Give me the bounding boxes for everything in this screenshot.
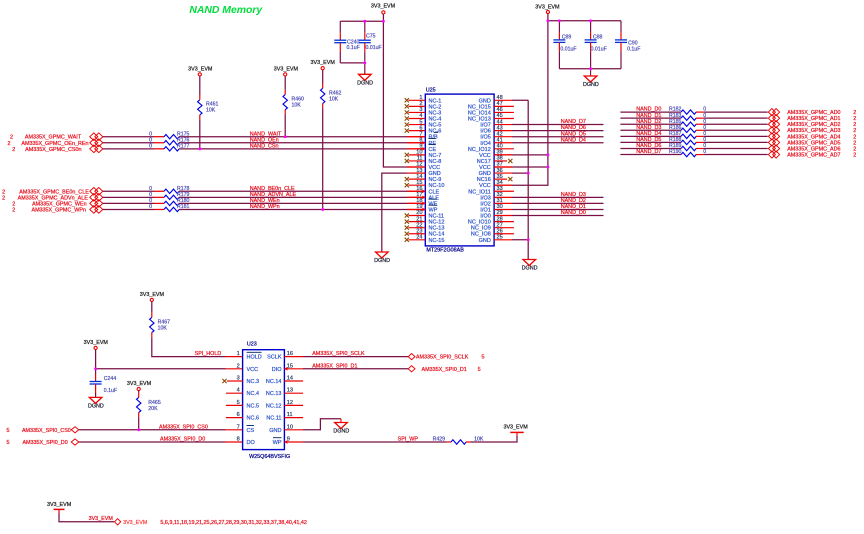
IC U23 W25Q64BVSFIG body — [243, 350, 285, 450]
resistor R465 20K pullup — [138, 391, 140, 393]
svg-text:3V3_EVM: 3V3_EVM — [188, 66, 213, 72]
wire net NAND_ADVN_ALE to U25 — [179, 196, 407, 198]
wire AM335X_SPI0_D0 to U23 pin 8 — [79, 441, 226, 443]
U25 pin 39 (VCC) — [479, 150, 512, 159]
svg-text:NAND_D4: NAND_D4 — [561, 137, 586, 143]
resistor R188 0 ohm — [681, 140, 696, 144]
svg-text:GND: GND — [269, 428, 281, 434]
capacitor C75 0.01uF — [364, 21, 366, 33]
U25 pin 19 (WP) — [407, 204, 438, 213]
svg-text:NC.4: NC.4 — [247, 391, 260, 397]
svg-text:SCLK: SCLK — [267, 355, 282, 361]
U25 pin 43 (I/O6) — [480, 125, 512, 134]
wire net NAND_D0 from U25 pin 29 — [512, 215, 604, 217]
svg-text:C88: C88 — [593, 35, 603, 41]
wire U25 pin 39 VCC to rail — [512, 154, 548, 156]
resistor R175 0 ohm — [154, 136, 164, 138]
U25 pin 48 (GND) — [479, 95, 512, 104]
wire R185 to off-page — [704, 123, 768, 125]
wire NAND_WEn left segment — [103, 202, 154, 204]
wire 3V3_EVM to off-page — [59, 514, 114, 522]
U25 pin 37 (VCC) — [479, 162, 512, 171]
svg-text:0.01uF: 0.01uF — [366, 45, 382, 51]
svg-text:3V3_EVM: 3V3_EVM — [47, 502, 72, 508]
svg-text:NAND_WPn: NAND_WPn — [250, 204, 280, 210]
wire net NAND_OEn to U25 — [179, 142, 407, 144]
svg-text:5: 5 — [478, 367, 481, 373]
resistor R183 0 ohm — [681, 116, 696, 120]
U23 pin 16 (SCLK) — [267, 351, 303, 361]
svg-text:2: 2 — [12, 207, 15, 213]
U25 pin 1 (NC-1) — [405, 95, 442, 104]
U25 pin 6 (NC-6) — [405, 125, 442, 134]
node AM335X_GPMC_AD1 off-page connector — [768, 115, 775, 122]
svg-text:3V3_EVM: 3V3_EVM — [274, 66, 299, 72]
svg-text:NC.13: NC.13 — [266, 391, 282, 397]
wire NAND_WPn left segment — [103, 208, 154, 210]
svg-text:NAND Memory: NAND Memory — [189, 5, 263, 16]
wire AM335X_SPI0_CS0 to U23 pin 7 — [79, 429, 226, 431]
U25 pin 41 (I/O4) — [480, 137, 512, 146]
svg-text:SPI_WP: SPI_WP — [398, 437, 419, 443]
node AM335X_GPMC_AD4 off-page connector — [768, 133, 775, 140]
svg-text:2: 2 — [237, 363, 240, 369]
wire U25 pin 37 VCC to rail — [512, 166, 548, 168]
svg-text:0.1uF: 0.1uF — [347, 45, 360, 51]
svg-text:3V3_EVM: 3V3_EVM — [140, 292, 165, 298]
U25 pin 14 (NC-9) — [405, 174, 442, 183]
U25 pin 36 (GND) — [479, 168, 512, 177]
svg-text:0: 0 — [149, 143, 152, 149]
U25 pin 38 (NC17) — [477, 156, 513, 165]
svg-text:NAND_D7: NAND_D7 — [636, 149, 661, 155]
U25 pin 28 (NC_IO10) — [468, 216, 514, 225]
svg-text:3V3_EVM: 3V3_EVM — [503, 425, 528, 431]
wire U25 pin 25 GND to rail — [512, 239, 528, 241]
wire R187 to off-page — [704, 135, 768, 137]
U25 pin 32 (I/O3) — [480, 192, 512, 201]
svg-text:C244: C244 — [104, 376, 117, 382]
svg-text:NC.5: NC.5 — [247, 403, 260, 409]
svg-text:DGND: DGND — [88, 403, 104, 409]
wire top-right cap bottom rail — [559, 68, 621, 70]
node AM335X_GPMC_AD0 off-page connector — [768, 109, 775, 116]
svg-text:2: 2 — [12, 147, 15, 153]
U23 pin 2 (VCC) — [237, 363, 258, 373]
svg-text:3V3_EVM: 3V3_EVM — [127, 381, 152, 387]
svg-text:3V3_EVM: 3V3_EVM — [535, 5, 560, 11]
U25 pin 3 (NC-3) — [405, 107, 442, 116]
U25 pin 4 (NC-4) — [405, 113, 442, 122]
junction dots overlay — [94, 19, 592, 431]
wire R182 to off-page — [704, 111, 768, 113]
svg-text:5,6,9,11,18,19,21,25,26,27,28,: 5,6,9,11,18,19,21,25,26,27,28,29,30,31,3… — [160, 520, 306, 526]
U25 pin 16 (CLE) — [407, 186, 440, 195]
svg-text:0.1uF: 0.1uF — [104, 388, 117, 394]
wire net NAND_D2 right block — [620, 123, 681, 125]
svg-text:DIO: DIO — [272, 367, 283, 373]
svg-text:AM335X_SPI0_D0: AM335X_SPI0_D0 — [22, 440, 67, 446]
U25 pin 25 (GND) — [479, 234, 512, 243]
node AM335X_SPI0_SCLK off-page connector — [408, 354, 415, 360]
wire net NAND_D5 from U25 pin 42 — [512, 136, 604, 138]
wire NAND_BE0n_CLE left segment — [103, 190, 154, 192]
U25 pin 46 (NC_IO14) — [468, 107, 514, 116]
node 3V3_EVM off-page connector (bottom) — [115, 519, 121, 525]
svg-text:NC.12: NC.12 — [266, 403, 282, 409]
resistor R190 0 ohm — [681, 152, 696, 156]
ground DGND (top middle) — [364, 63, 366, 74]
svg-text:R429: R429 — [433, 437, 446, 443]
svg-text:CS: CS — [247, 428, 255, 434]
U25 pin 15 (NC-10) — [405, 180, 445, 189]
svg-text:AM335X_SPI0_D1: AM335X_SPI0_D1 — [312, 363, 357, 369]
svg-text:AM335X_SPI0_CS0: AM335X_SPI0_CS0 — [159, 424, 208, 430]
U23 pin 12 (NC.12) — [266, 400, 303, 410]
wire cap top rail — [340, 20, 383, 22]
U25 pin 2 (NC-2) — [405, 101, 442, 110]
svg-text:0: 0 — [149, 204, 152, 210]
resistor R189 0 ohm — [681, 146, 696, 150]
U23 pin 5 (NC.5) — [226, 400, 259, 410]
U25 pin 22 (NC-13) — [405, 222, 445, 231]
svg-text:DO: DO — [247, 440, 256, 446]
IC U25 MT29F2G08AB body — [425, 94, 494, 246]
svg-text:10K: 10K — [292, 103, 302, 109]
svg-text:W25Q64BVSFIG: W25Q64BVSFIG — [249, 454, 290, 460]
svg-text:20K: 20K — [148, 406, 158, 412]
U25 pin 17 (ALE) — [407, 192, 439, 201]
resistor R462 10K pullup — [322, 70, 324, 84]
wire net NAND_D5 right block — [620, 141, 681, 143]
U25 pin 20 (NC-11) — [405, 210, 444, 219]
svg-text:DGND: DGND — [583, 82, 599, 88]
resistor R178 0 ohm — [154, 190, 164, 192]
U25 pin 42 (I/O5) — [480, 131, 512, 140]
U25 pin 5 (NC-5) — [405, 119, 442, 128]
svg-text:10K: 10K — [158, 326, 168, 332]
U23 pin 14 (NC.14) — [266, 376, 303, 386]
svg-text:DGND: DGND — [522, 266, 538, 272]
svg-text:AM335X_SPI0_D1: AM335X_SPI0_D1 — [422, 367, 467, 373]
wire U25 pin 13 GND to DGND drop — [407, 172, 425, 174]
U25 pin 9 (CE) — [407, 144, 436, 153]
resistor R186 0 ohm — [681, 128, 696, 132]
svg-text:NC.6: NC.6 — [247, 416, 260, 422]
wire AM335X_SPI0_SCLK from U23 pin 16 — [303, 356, 408, 358]
capacitor C88 0.01uF — [590, 21, 592, 33]
capacitor C240 0.1uF — [339, 21, 341, 33]
U23 pin 6 (NC.6) — [226, 412, 259, 422]
svg-text:AM335X_GPMC_WPn: AM335X_GPMC_WPn — [31, 207, 86, 213]
wire net NAND_D0 right block — [620, 111, 681, 113]
wire AM335X_SPI0_D1 from U23 pin 15 — [303, 368, 408, 370]
ground DGND (below U25) — [523, 260, 536, 266]
svg-text:3V3_EVM: 3V3_EVM — [371, 3, 396, 9]
svg-text:GND: GND — [479, 238, 491, 244]
svg-text:10K: 10K — [329, 96, 339, 102]
U25 pin 7 (R/B) — [407, 131, 438, 140]
resistor R177 0 ohm — [154, 148, 164, 150]
wire NAND_WAIT left segment — [103, 136, 154, 138]
U25 pin 21 (NC-12) — [405, 216, 445, 225]
ground DGND (top right) — [590, 69, 592, 76]
svg-text:NC.3: NC.3 — [247, 379, 260, 385]
svg-text:3V3_EVM: 3V3_EVM — [89, 516, 114, 522]
svg-text:DGND: DGND — [333, 429, 349, 435]
svg-text:5: 5 — [482, 355, 485, 361]
wire R188 to off-page — [704, 141, 768, 143]
svg-text:NAND_D0: NAND_D0 — [561, 210, 586, 216]
U25 pin 11 (NC-8) — [405, 156, 442, 165]
wire net NAND_CSn to U25 — [179, 148, 407, 150]
U25 pin 23 (NC-14) — [405, 228, 445, 237]
resistor R182 0 ohm — [681, 110, 696, 114]
wire net NAND_WPn to U25 — [179, 208, 407, 210]
U25 pin 47 (NC_IO15) — [468, 101, 514, 110]
U23 pin 7 (CS) — [237, 424, 255, 434]
ground DGND (U23) — [340, 419, 342, 423]
U25 pin 31 (I/O2) — [480, 198, 512, 207]
U25 pin 18 (WE) — [407, 198, 438, 207]
node AM335X_GPMC_AD6 off-page connector — [768, 145, 775, 152]
svg-text:7: 7 — [237, 424, 240, 430]
resistor R179 0 ohm — [154, 196, 164, 198]
svg-text:U25: U25 — [426, 88, 436, 94]
wire NAND_ADVN_ALE left segment — [103, 196, 154, 198]
U25 pin 24 (NC-15) — [405, 234, 445, 243]
wire U25 pin 48 GND to rail — [512, 99, 528, 101]
wire net NAND_D7 right block — [620, 154, 681, 156]
svg-text:NAND_CSn: NAND_CSn — [250, 143, 279, 149]
ground DGND (U25 pin 13) — [376, 252, 389, 258]
svg-text:C89: C89 — [562, 35, 572, 41]
resistor R461 10K pullup — [199, 76, 201, 95]
wire net NAND_D1 from U25 pin 30 — [512, 208, 604, 210]
U25 pin 10 (NC-7) — [405, 150, 442, 159]
U25 pin 34 (VCC) — [479, 180, 512, 189]
node AM335X_GPMC_AD5 off-page connector — [768, 139, 775, 146]
U23 pin 3 (NC.3) — [222, 376, 259, 386]
wire 3V3 vertical to U25 pin 12 — [383, 14, 407, 167]
svg-text:0.1uF: 0.1uF — [627, 47, 640, 53]
node AM335X_GPMC_AD3 off-page connector — [768, 127, 775, 134]
U23 pin 13 (NC.13) — [266, 388, 303, 398]
capacitor C89 0.01uF — [558, 21, 560, 33]
svg-text:1: 1 — [237, 351, 240, 357]
svg-text:5: 5 — [7, 440, 10, 446]
svg-text:8: 8 — [237, 437, 240, 443]
wire R429 to 3V3_EVM — [471, 436, 518, 442]
resistor R429 10K — [447, 441, 452, 443]
wire net NAND_D3 from U25 pin 32 — [512, 196, 604, 198]
wire NAND_OEn left segment — [103, 142, 154, 144]
node AM335X_GPMC_AD7 off-page connector — [768, 151, 775, 158]
U25 pin 27 (NC_IO9) — [471, 222, 514, 231]
svg-text:AM335X_GPMC_CS0n: AM335X_GPMC_CS0n — [25, 147, 81, 153]
svg-text:DGND: DGND — [374, 258, 390, 264]
capacitor C244 0.1uF — [95, 369, 97, 374]
svg-text:NC.11: NC.11 — [266, 416, 281, 422]
wire R190 to off-page — [704, 154, 768, 156]
wire cap bottom rail — [340, 62, 365, 64]
U25 pin 12 (VCC) — [407, 162, 440, 171]
wire R189 to off-page — [704, 147, 768, 149]
wire net NAND_WAIT to U25 — [179, 136, 407, 138]
svg-text:AM335X_SPI0_D0: AM335X_SPI0_D0 — [160, 437, 205, 443]
U23 pin 10 (GND) — [269, 424, 303, 434]
svg-text:HOLD: HOLD — [247, 355, 262, 361]
svg-text:AM335X_SPI0_CS0: AM335X_SPI0_CS0 — [22, 428, 71, 434]
svg-text:5: 5 — [7, 428, 10, 434]
wire net NAND_D6 from U25 pin 43 — [512, 130, 604, 132]
svg-text:U23: U23 — [247, 342, 257, 348]
resistor R185 0 ohm — [681, 122, 696, 126]
resistor R176 0 ohm — [154, 142, 164, 144]
wire R183 to off-page — [704, 117, 768, 119]
wire R186 to off-page — [704, 129, 768, 131]
U23 pin 4 (NC.4) — [226, 388, 259, 398]
U23 pin 1 (HOLD) — [237, 351, 262, 361]
svg-text:AM335X_GPMC_AD7: AM335X_GPMC_AD7 — [787, 152, 840, 158]
wire 3V3 to U23 pin 2 VCC — [96, 350, 226, 369]
wire SPI_WP from U23 pin 9 — [303, 441, 447, 443]
wire NAND_CSn left segment — [103, 148, 154, 150]
svg-text:VCC: VCC — [247, 367, 259, 373]
wire net NAND_D6 right block — [620, 147, 681, 149]
svg-text:3V3_EVM: 3V3_EVM — [84, 340, 109, 346]
wire U25 pin 36 GND to rail — [512, 172, 528, 174]
svg-text:3V3_EVM: 3V3_EVM — [123, 520, 148, 526]
power 3V3_EVM (right of R429) — [516, 432, 518, 435]
wire net NAND_D4 from U25 pin 41 — [512, 142, 604, 144]
U25 pin 30 (I/O1) — [480, 204, 512, 213]
svg-text:AM335X_SPI0_SCLK: AM335X_SPI0_SCLK — [312, 351, 365, 357]
wire VCC rail down to U25 pin 34 — [512, 14, 548, 186]
wire net NAND_WEn to U25 — [179, 202, 407, 204]
wire net NAND_D3 right block — [620, 129, 681, 131]
wire U23 pin 10 GND to DGND — [303, 419, 341, 430]
svg-text:SPI_HOLD: SPI_HOLD — [195, 351, 222, 357]
U25 pin 26 (NC_IO8) — [471, 228, 514, 237]
U23 pin 8 (DO) — [237, 437, 256, 447]
svg-text:2: 2 — [853, 152, 856, 158]
svg-text:C90: C90 — [628, 40, 638, 46]
svg-text:0.01uF: 0.01uF — [591, 47, 607, 53]
U25 pin 13 (GND) — [407, 168, 441, 177]
wire net NAND_D7 from U25 pin 44 — [512, 124, 604, 126]
capacitor C90 0.1uF — [620, 21, 622, 33]
resistor R180 0 ohm — [154, 202, 164, 204]
svg-text:AM335X_SPI0_SCLK: AM335X_SPI0_SCLK — [416, 355, 469, 361]
U25 pin 40 (NC_IO12) — [468, 144, 514, 153]
wire net NAND_D2 from U25 pin 31 — [512, 202, 604, 204]
resistor R181 0 ohm — [154, 208, 164, 210]
U23 pin 15 (DIO) — [272, 363, 303, 373]
ground DGND (C244) — [89, 397, 102, 403]
svg-text:2: 2 — [2, 195, 5, 201]
svg-text:WP: WP — [273, 440, 282, 446]
wire net NAND_D1 right block — [620, 117, 681, 119]
U25 pin 33 (NC_IO11) — [468, 186, 514, 195]
U25 pin 29 (I/O0) — [480, 210, 512, 219]
svg-text:R190: R190 — [669, 149, 682, 155]
wire net NAND_BE0n_CLE to U25 — [179, 190, 407, 192]
svg-text:2: 2 — [8, 141, 11, 147]
svg-text:10K: 10K — [206, 107, 216, 113]
node AM335X_GPMC_AD2 off-page connector — [768, 121, 775, 128]
wire net NAND_D4 right block — [620, 135, 681, 137]
resistor R187 0 ohm — [681, 134, 696, 138]
U23 pin 9 (WP) — [273, 437, 303, 447]
node AM335X_SPI0_D1 off-page connector — [408, 366, 415, 372]
resistor R467 10K pullup — [151, 302, 153, 313]
U25 pin 45 (NC_IO13) — [468, 113, 514, 122]
U25 pin 35 (NC16) — [477, 174, 513, 183]
U23 pin 11 (NC.11) — [266, 412, 303, 422]
wire top-right cap rail — [548, 20, 621, 22]
svg-text:NC-15: NC-15 — [429, 238, 445, 244]
U25 pin 8 (RE) — [407, 137, 436, 146]
svg-text:NC.14: NC.14 — [266, 379, 282, 385]
svg-text:0.01uF: 0.01uF — [560, 47, 576, 53]
wire GND rail right of U25 — [527, 100, 529, 259]
svg-text:C75: C75 — [366, 33, 376, 39]
resistor R460 10K pullup — [284, 76, 286, 90]
svg-text:MT29F2G08AB: MT29F2G08AB — [426, 248, 464, 254]
svg-text:3V3_EVM: 3V3_EVM — [311, 60, 336, 66]
U25 pin 44 (I/O7) — [480, 119, 512, 128]
svg-text:DGND: DGND — [357, 80, 373, 86]
